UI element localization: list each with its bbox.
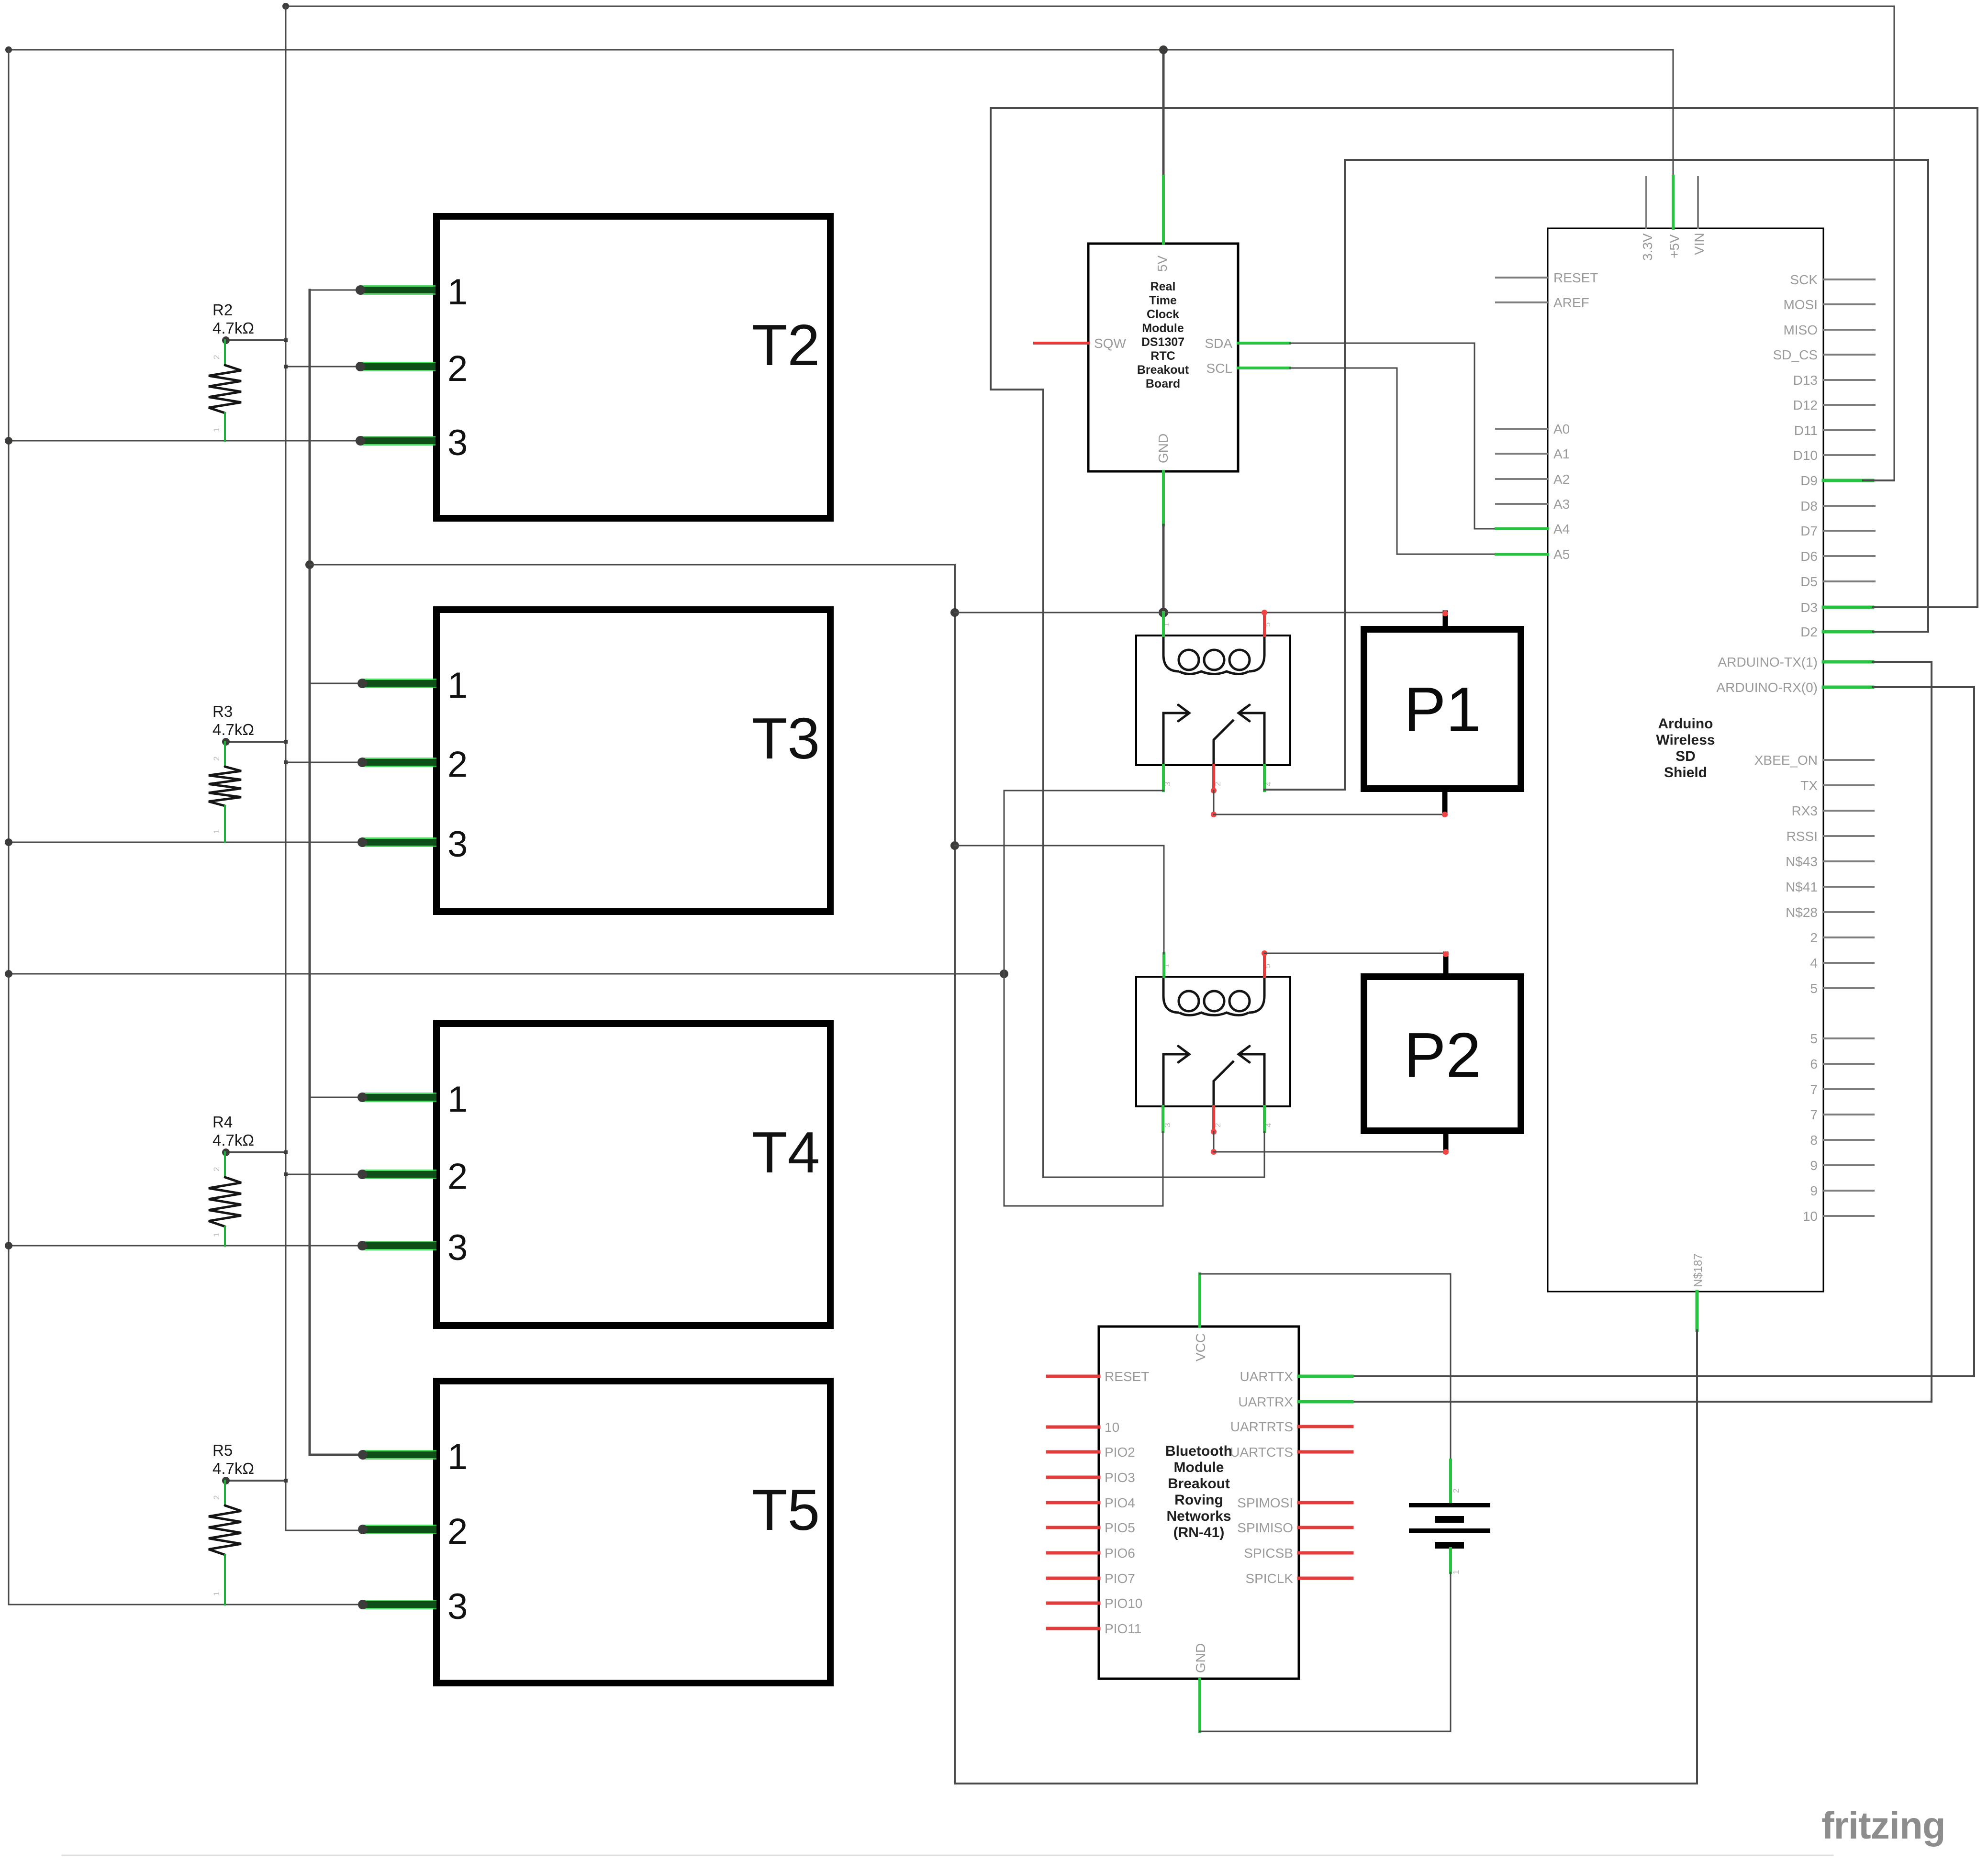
svg-text:8: 8: [1810, 1133, 1818, 1148]
Arduino right pin D5: [1823, 580, 1875, 582]
T3 pin 3: [357, 837, 436, 847]
relay K1 pin 2 red endpoint: [1211, 788, 1217, 793]
svg-text:1: 1: [447, 1437, 468, 1477]
svg-text:2: 2: [212, 757, 221, 761]
resistor R4 designator label: [212, 1113, 233, 1131]
svg-text:ARDUINO-TX(1): ARDUINO-TX(1): [1718, 655, 1818, 669]
Bluetooth GND pin label: [1193, 1643, 1208, 1673]
Bluetooth left pin PIO6: [1048, 1551, 1099, 1555]
wire N$187 to bottom GND bus: [1696, 1330, 1698, 1784]
Arduino right pin D8: [1823, 505, 1875, 507]
svg-text:Roving: Roving: [1174, 1492, 1223, 1508]
P1 bottom pin stub: [1442, 789, 1448, 814]
junction 5V bus left corner: [5, 46, 12, 53]
T2 pin 2: [286, 366, 360, 368]
svg-text:1: 1: [447, 1079, 468, 1120]
wire RTC GND to GND net: [1162, 525, 1165, 613]
svg-text:SDA: SDA: [1205, 336, 1232, 351]
svg-text:RSSI: RSSI: [1787, 829, 1818, 844]
junction relay K2 pin2 node: [1211, 1149, 1217, 1155]
T5 pin 3: [358, 1600, 436, 1609]
T5 pin 1 number: [447, 1437, 468, 1477]
svg-text:N$28: N$28: [1786, 905, 1818, 920]
wire 5V bus left drop (VDD rail x=18): [8, 50, 10, 1605]
Arduino right pin 10 row 2541: [1823, 1215, 1874, 1217]
relay coil: [1163, 636, 1264, 674]
wire to P2 bottom pin: [1214, 1151, 1446, 1153]
relay K2 pin 3 stub: [1162, 1106, 1164, 1132]
T3 pin 2: [286, 762, 362, 763]
P2 top pin stub: [1443, 954, 1449, 977]
RTC module box DS1307: [1088, 244, 1238, 471]
wire D3 net to relay K2 pin4: [991, 108, 1977, 1177]
svg-text:RTC: RTC: [1150, 349, 1175, 363]
Arduino right pin D9: [1823, 479, 1873, 482]
wire Bluetooth VCC to battery positive: [1200, 1274, 1451, 1460]
svg-text:GND: GND: [1156, 434, 1171, 463]
svg-text:D11: D11: [1794, 423, 1818, 438]
Arduino right pin ARDUINO-RX(0): [1823, 686, 1873, 689]
RTC SCL pin stub: [1238, 367, 1290, 369]
resistor R2 value label: [212, 319, 254, 337]
relay K2 pin 1 stub: [1162, 954, 1165, 977]
wire data bus top (net D9/data) horizontal y=13: [286, 6, 1894, 7]
resistor R3 top pin dot: [222, 738, 230, 746]
svg-text:RX3: RX3: [1792, 803, 1818, 818]
Arduino right pin D3: [1823, 606, 1873, 609]
RTC SCL label: [1206, 361, 1232, 376]
wire relay K2 pin2 to P2 bottom: [1213, 1132, 1215, 1152]
svg-text:Wireless: Wireless: [1656, 732, 1715, 748]
Arduino right pin SCK: [1823, 279, 1875, 280]
RTC GND pin label: [1156, 434, 1171, 463]
svg-text:PIO10: PIO10: [1105, 1596, 1142, 1611]
resistor R4 top pin dot: [222, 1148, 230, 1156]
resistor R5 pin2 tiny label: [212, 1495, 221, 1500]
relay contact left bracket with arrow: [1163, 1046, 1189, 1106]
Arduino +5V label: [1667, 234, 1682, 258]
svg-text:SCK: SCK: [1790, 272, 1818, 287]
svg-text:D10: D10: [1793, 448, 1818, 463]
junction VDD rail at T3 pin3 row: [5, 838, 12, 846]
svg-text:fritzing: fritzing: [1821, 1804, 1945, 1847]
wire SDA to A4: [1290, 343, 1496, 529]
T2 pin 3 number: [447, 423, 468, 463]
junction GND trunk at relay1 branch: [950, 608, 959, 617]
svg-text:R5: R5: [212, 1441, 233, 1459]
Arduino shield title: [1658, 716, 1713, 732]
svg-text:D13: D13: [1793, 373, 1818, 388]
resistor R4 pin1 tiny label: [212, 1233, 221, 1237]
Bluetooth left pin 10: [1048, 1426, 1099, 1429]
relay K1 pin 4 stub: [1263, 765, 1266, 791]
junction data bus branch: [284, 1172, 288, 1176]
P1 top pin red endpoint: [1442, 611, 1448, 616]
relay K1 pin S stub: [1263, 613, 1266, 636]
P2 bottom pin red endpoint: [1443, 1149, 1449, 1155]
wire relay K2 pin1 feed from GND trunk: [955, 846, 1164, 954]
relay K2 pin S stub: [1263, 953, 1266, 977]
T2 pin 1: [310, 290, 360, 291]
RTC title text: [1150, 280, 1176, 293]
resistor R5 top lead: [224, 1481, 226, 1505]
RTC SDA pin stub: [1238, 342, 1290, 345]
svg-text:D7: D7: [1800, 524, 1818, 538]
svg-text:T5: T5: [752, 1477, 820, 1542]
battery pin 1 label: [1452, 1570, 1461, 1574]
RTC SQW red pin: [1035, 342, 1088, 345]
Arduino top pin +5V stub: [1672, 176, 1675, 228]
svg-text:Breakout: Breakout: [1137, 363, 1189, 377]
svg-text:1: 1: [212, 1233, 221, 1237]
T3 pin 1: [310, 683, 362, 684]
T5 label: [752, 1477, 820, 1542]
T2 pin 3: [356, 436, 436, 446]
svg-text:4: 4: [1810, 956, 1818, 970]
svg-text:PIO7: PIO7: [1105, 1571, 1135, 1586]
relay switch lever: [1214, 1061, 1234, 1106]
svg-text:2: 2: [447, 1156, 468, 1197]
junction relay feed joins relay pin3 trunk: [1000, 970, 1008, 978]
svg-text:UARTRX: UARTRX: [1238, 1394, 1293, 1409]
svg-text:T2: T2: [752, 312, 820, 378]
resistor R2 top lead: [224, 340, 226, 365]
Arduino right pin MOSI: [1823, 303, 1875, 305]
svg-text:Clock: Clock: [1147, 308, 1179, 321]
relay contact left bracket with arrow: [1163, 705, 1189, 765]
svg-text:P1: P1: [1404, 674, 1481, 745]
T4 pin 1: [310, 1097, 362, 1098]
relay K1 pin 1 stub: [1162, 613, 1165, 636]
svg-text:2: 2: [447, 348, 468, 389]
junction VDD rail at relay feed: [5, 970, 12, 978]
resistor R2 zigzag body: [209, 365, 241, 413]
svg-text:Module: Module: [1174, 1460, 1224, 1475]
svg-text:Breakout: Breakout: [1168, 1476, 1230, 1492]
svg-text:R2: R2: [212, 301, 233, 319]
T4 label: [752, 1120, 820, 1185]
resistor R5 top pin dot: [222, 1477, 230, 1484]
svg-text:Bluetooth: Bluetooth: [1165, 1443, 1232, 1459]
battery pin 2 label: [1452, 1489, 1461, 1493]
resistor R4 pin2 tiny label: [212, 1167, 221, 1171]
battery pin 2 stub: [1449, 1460, 1452, 1503]
relay pin labels: [1162, 964, 1273, 1127]
Bluetooth left pin PIO2: [1048, 1450, 1099, 1454]
Arduino right pin TX row 1641: [1823, 784, 1874, 786]
svg-text:DS1307: DS1307: [1141, 335, 1184, 349]
Arduino right pin 7 row 2276: [1823, 1088, 1874, 1090]
RTC 5V pin label: [1155, 255, 1170, 272]
svg-text:1: 1: [212, 428, 221, 432]
P1 bottom pin red endpoint: [1442, 812, 1448, 817]
T4 pin 2 number: [447, 1156, 468, 1197]
svg-text:A2: A2: [1553, 472, 1570, 487]
svg-text:D3: D3: [1800, 600, 1818, 615]
svg-text:10: 10: [1803, 1209, 1818, 1224]
svg-text:D8: D8: [1800, 499, 1818, 513]
wire T2 pin3 VDD row: [9, 440, 360, 442]
Arduino top pin VIN stub: [1697, 177, 1699, 228]
Arduino right pin 5 row 2170: [1823, 1037, 1874, 1039]
svg-text:3: 3: [447, 423, 468, 463]
resistor R2 bottom lead: [224, 413, 226, 441]
Arduino right pin ARDUINO-TX(1): [1823, 660, 1873, 664]
svg-text:TX: TX: [1800, 778, 1818, 793]
svg-text:PIO3: PIO3: [1105, 1470, 1135, 1485]
svg-text:PIO4: PIO4: [1105, 1495, 1135, 1510]
svg-text:SPICSB: SPICSB: [1244, 1546, 1293, 1561]
svg-text:SD: SD: [1675, 748, 1696, 764]
Bluetooth left pin PIO10: [1048, 1602, 1099, 1605]
junction VDD rail at T4 pin3 row: [5, 1242, 12, 1249]
wire D2 net to relay K1 pin4: [1264, 160, 1928, 790]
svg-text:1: 1: [212, 829, 221, 834]
svg-text:7: 7: [1810, 1107, 1818, 1122]
svg-text:T4: T4: [752, 1120, 820, 1185]
Bluetooth right pin SPIMISO: [1299, 1526, 1352, 1529]
svg-text:D9: D9: [1800, 473, 1818, 488]
Arduino right pin D6: [1823, 555, 1875, 557]
svg-text:N$41: N$41: [1786, 880, 1818, 894]
svg-text:P2: P2: [1404, 1020, 1481, 1090]
resistor R5 top wire to data bus: [226, 1480, 286, 1482]
relay K2 pin 2 red endpoint: [1211, 1129, 1217, 1135]
Bluetooth left pin PIO3: [1048, 1476, 1099, 1479]
svg-text:Shield: Shield: [1664, 765, 1707, 780]
wire relay common feed from VDD rail y=2035: [9, 973, 1004, 975]
Arduino 3.3V label: [1640, 233, 1655, 261]
junction top-left corner of data bus: [282, 3, 289, 10]
Bluetooth left pin PIO7: [1048, 1577, 1099, 1580]
wire +5V pin drop from 5V bus: [1673, 50, 1674, 176]
relay pin labels: [1162, 623, 1273, 786]
T3 pin 1 number: [447, 665, 468, 706]
relay contact right bracket with arrow: [1239, 705, 1264, 765]
svg-text:D12: D12: [1793, 398, 1818, 413]
svg-text:N$43: N$43: [1786, 854, 1818, 869]
svg-text:ARDUINO-RX(0): ARDUINO-RX(0): [1716, 680, 1818, 695]
Bluetooth right pin UARTRX: [1299, 1400, 1352, 1404]
resistor R4 value label: [212, 1131, 254, 1149]
junction data bus branch: [284, 1479, 288, 1483]
svg-text:Networks: Networks: [1166, 1508, 1231, 1524]
Arduino left pin RESET: [1496, 277, 1548, 279]
sensor box T2: [436, 216, 830, 518]
Arduino right pin MISO: [1823, 329, 1875, 331]
resistor R3 pin1 tiny label: [212, 829, 221, 834]
resistor R3 value label: [212, 721, 254, 738]
svg-text:A3: A3: [1553, 497, 1570, 512]
resistor R2 designator label: [212, 301, 233, 319]
resistor R5 designator label: [212, 1441, 233, 1459]
Arduino left pin A0: [1496, 428, 1548, 430]
relay box: [1136, 636, 1290, 765]
wire GND net y=1280 to P1 top: [955, 612, 1445, 613]
resistor R3 zigzag body: [209, 767, 241, 806]
relay box: [1136, 977, 1290, 1106]
Arduino left pin A5: [1496, 553, 1548, 556]
svg-text:7: 7: [1810, 1082, 1818, 1097]
wire 5V bus horizontal y=104: [9, 49, 1673, 51]
P1 label: [1404, 674, 1481, 745]
svg-text:UARTCTS: UARTCTS: [1230, 1445, 1293, 1460]
sensor box T4: [436, 1024, 830, 1326]
Arduino right pin 9 row 2435: [1823, 1164, 1874, 1166]
Arduino left pin A4: [1496, 527, 1548, 530]
P2 bottom pin stub: [1443, 1131, 1449, 1151]
Arduino right pin XBEE_ON row 1588: [1823, 759, 1874, 761]
Bluetooth left pin PIO5: [1048, 1526, 1099, 1529]
svg-text:SPICLK: SPICLK: [1245, 1571, 1293, 1586]
wire ARDUINO-TX(1) to bluetooth UARTRX: [1352, 662, 1932, 1402]
svg-text:2: 2: [212, 1167, 221, 1171]
wire T4 pin3 VDD row: [9, 1245, 362, 1247]
Bluetooth title: [1165, 1443, 1232, 1459]
P2 top pin red endpoint: [1443, 951, 1449, 957]
svg-text:VIN: VIN: [1692, 233, 1707, 255]
T3 pin 2 number: [447, 744, 468, 785]
resistor R3 top wire to data bus: [226, 741, 286, 743]
svg-text:D6: D6: [1800, 549, 1818, 564]
sensor box T3: [436, 610, 830, 912]
svg-text:UARTRTS: UARTRTS: [1230, 1419, 1293, 1434]
relay K2 pin 2 stub: [1212, 1106, 1215, 1132]
svg-text:SD_CS: SD_CS: [1773, 347, 1818, 362]
resistor R2 top pin dot: [222, 336, 230, 344]
svg-text:5: 5: [1810, 981, 1818, 996]
Bluetooth VCC pin stub: [1198, 1274, 1201, 1327]
svg-text:R4: R4: [212, 1113, 233, 1131]
svg-text:A1: A1: [1553, 446, 1570, 461]
T3 label: [752, 706, 820, 771]
wire SCL to A5: [1290, 368, 1496, 554]
wire T3 pin3 VDD row: [9, 842, 362, 843]
Bluetooth right pin UARTTX: [1299, 1375, 1352, 1378]
svg-text:9: 9: [1810, 1183, 1818, 1198]
resistor R5 value label: [212, 1460, 254, 1477]
T4 pin 1 number: [447, 1079, 468, 1120]
svg-text:+5V: +5V: [1667, 234, 1682, 258]
Bluetooth VCC pin label: [1193, 1333, 1208, 1361]
Bluetooth right pin UARTCTS: [1299, 1450, 1352, 1454]
Arduino right pin N$28 row 1906: [1823, 911, 1874, 913]
svg-text:6: 6: [1810, 1057, 1818, 1071]
svg-text:PIO5: PIO5: [1105, 1520, 1135, 1535]
resistor R4 bottom lead: [224, 1226, 226, 1246]
resistor R5 pin1 tiny label: [212, 1592, 221, 1596]
Arduino right pin D13: [1823, 379, 1875, 381]
relay K1 pin 3 stub: [1162, 765, 1165, 791]
svg-text:SQW: SQW: [1094, 336, 1126, 351]
svg-text:Time: Time: [1149, 294, 1177, 307]
resistor R4 top lead: [224, 1152, 226, 1177]
svg-text:2: 2: [447, 744, 468, 785]
svg-text:4.7kΩ: 4.7kΩ: [212, 1131, 254, 1149]
svg-text:N$187: N$187: [1692, 1253, 1705, 1287]
Arduino top pin 3.3V stub: [1645, 177, 1647, 228]
svg-text:Real: Real: [1150, 280, 1176, 293]
T2 label: [752, 312, 820, 378]
relay switch lever: [1214, 720, 1234, 765]
junction GND rail to cross-wire: [305, 560, 314, 569]
T4 pin 3: [357, 1241, 436, 1250]
T5 pin 1: [358, 1450, 436, 1460]
svg-text:R3: R3: [212, 702, 233, 720]
svg-text:3: 3: [447, 1586, 468, 1627]
wire GND trunk x=1995 down to bottom bus: [955, 565, 1697, 1784]
Arduino right pin D7: [1823, 530, 1875, 532]
Bluetooth GND pin stub: [1198, 1679, 1201, 1731]
svg-text:2: 2: [212, 355, 221, 359]
svg-text:PIO6: PIO6: [1105, 1546, 1135, 1561]
junction relay K1 pin2 node: [1211, 812, 1217, 817]
sensor box T5: [436, 1381, 830, 1683]
Arduino right pin D10: [1823, 454, 1875, 456]
page bottom faint edge: [62, 1855, 1833, 1856]
svg-text:AREF: AREF: [1553, 295, 1589, 310]
wire GND rail x=646 from T2 pin1 to T5 pin1: [310, 290, 363, 1455]
T5 pin 2: [358, 1525, 436, 1534]
Arduino right pin N$41 row 1853: [1823, 886, 1874, 888]
Arduino N$187 label: [1692, 1253, 1705, 1287]
wire D9 net corner: [1863, 479, 1894, 481]
Bluetooth left pin PIO4: [1048, 1501, 1099, 1505]
Arduino right pin N$43 row 1800: [1823, 860, 1874, 862]
wire T5 pin3 VDD row: [9, 1604, 363, 1606]
svg-text:UARTTX: UARTTX: [1240, 1369, 1294, 1384]
T5 pin 2 number: [447, 1511, 468, 1552]
fritzing watermark: [1821, 1804, 1945, 1847]
svg-text:4.7kΩ: 4.7kΩ: [212, 1460, 254, 1477]
Bluetooth right pin UARTRTS: [1299, 1425, 1352, 1428]
svg-text:PIO2: PIO2: [1105, 1445, 1135, 1460]
Bluetooth left pin RESET: [1048, 1375, 1099, 1378]
junction data bus branch: [284, 1150, 288, 1154]
svg-text:1: 1: [212, 1592, 221, 1596]
svg-text:2: 2: [447, 1511, 468, 1552]
svg-text:2: 2: [1452, 1489, 1461, 1493]
svg-text:T3: T3: [752, 706, 820, 771]
svg-text:SPIMISO: SPIMISO: [1237, 1520, 1293, 1535]
svg-text:A4: A4: [1553, 522, 1570, 536]
wire data bus right drop to D9: [1863, 6, 1894, 480]
Arduino right pin D2: [1823, 630, 1873, 634]
relay K2 pin 4 stub: [1263, 1106, 1266, 1132]
svg-text:MISO: MISO: [1783, 323, 1818, 337]
svg-text:1: 1: [447, 665, 468, 706]
Bluetooth module box RN-41: [1099, 1327, 1299, 1679]
svg-text:3: 3: [447, 1227, 468, 1268]
pump box P1: [1364, 629, 1521, 789]
wire GND rail cross-over to x=1995: [310, 564, 955, 566]
relay K1 pin 2 stub: [1212, 765, 1215, 791]
relay K1 pin S red endpoint: [1262, 610, 1267, 615]
T4 pin 3 number: [447, 1227, 468, 1268]
RTC 5V pin stub: [1162, 176, 1165, 244]
wire to P1 bottom pin: [1214, 814, 1445, 815]
RTC 5V pin wire from 5V bus: [1162, 50, 1165, 176]
Arduino right pin D11: [1823, 429, 1875, 431]
battery BAT1 plates: [1409, 1503, 1490, 1549]
svg-text:(RN-41): (RN-41): [1173, 1525, 1225, 1540]
svg-text:D2: D2: [1800, 624, 1818, 639]
svg-text:Board: Board: [1146, 377, 1180, 390]
junction 5V bus at RTC feed: [1159, 45, 1168, 54]
Arduino left pin A1: [1496, 453, 1548, 455]
Arduino right pin 5 row 2065: [1823, 987, 1874, 989]
relay contact right bracket with arrow: [1239, 1046, 1264, 1106]
